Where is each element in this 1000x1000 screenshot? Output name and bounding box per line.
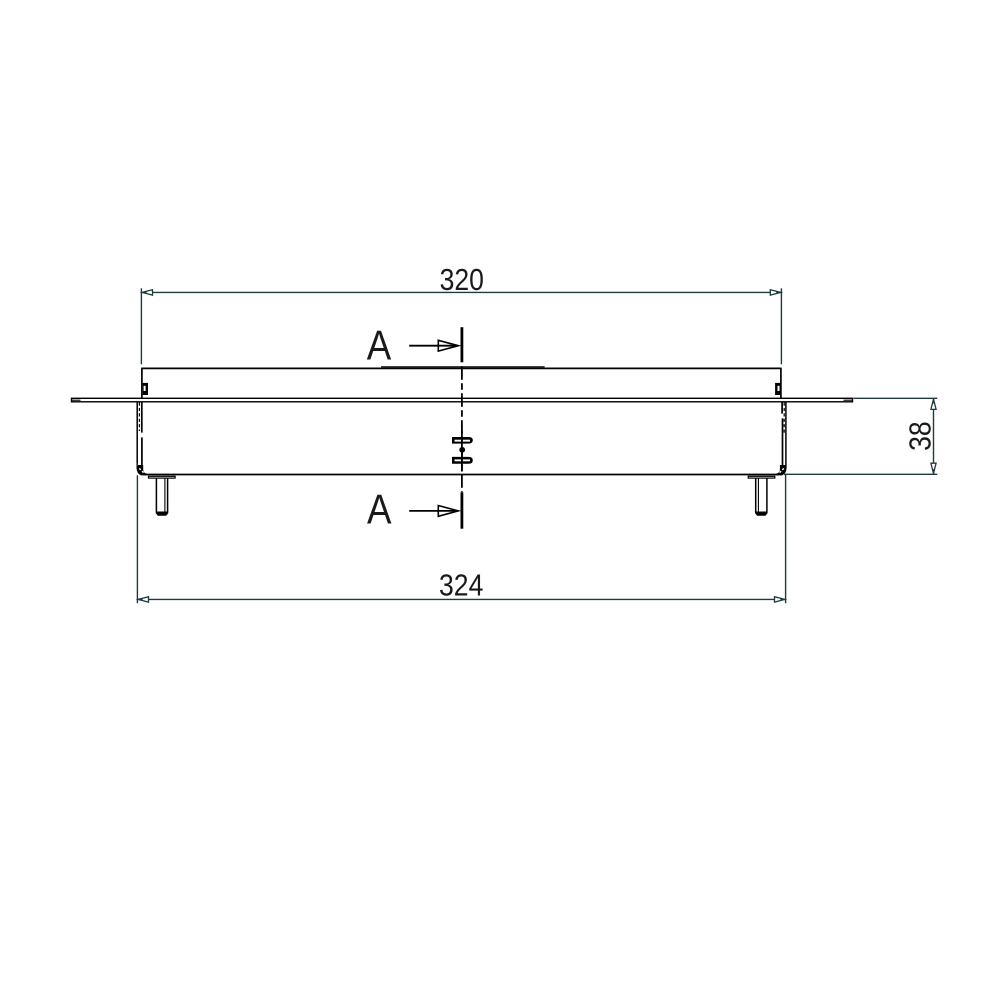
section label A top <box>367 323 392 369</box>
dimension 320 text <box>440 264 484 298</box>
svg-text:324: 324 <box>439 569 483 603</box>
lower box right wall inner <box>781 402 783 465</box>
dimension 320 line <box>141 290 781 295</box>
svg-text:A: A <box>367 323 392 369</box>
body bottom edge <box>145 474 779 476</box>
dimension 324 line <box>137 597 785 602</box>
section label A bottom <box>367 487 392 533</box>
regulator knob upper bar <box>452 437 473 444</box>
bottom-right corner fillet <box>776 465 787 475</box>
left wall hidden dashed edge <box>138 403 140 432</box>
lower box right wall outer <box>785 402 787 467</box>
svg-text:320: 320 <box>440 264 484 298</box>
upper box left wall <box>141 368 143 399</box>
regulator knob center dot <box>459 447 465 453</box>
section arrow top <box>409 340 458 351</box>
left foot plate <box>149 476 176 478</box>
dimension 324 extension lines <box>137 463 785 603</box>
dimension 38 line <box>931 398 936 474</box>
lower box left wall outer <box>136 402 138 467</box>
dimension 324 text <box>439 569 483 603</box>
dimension 38 extension lines <box>784 398 937 474</box>
lower box left wall inner <box>141 402 143 465</box>
section line A-A <box>460 327 463 529</box>
svg-text:38: 38 <box>904 421 938 451</box>
regulator knob lower bar <box>452 457 473 464</box>
upper box right wall <box>780 368 782 399</box>
left clip tab <box>143 383 148 395</box>
lid edge segment <box>381 366 545 368</box>
flange plate <box>72 398 853 402</box>
right wall hidden dashed edge <box>783 403 785 435</box>
right foot plate <box>748 476 775 478</box>
bottom-left corner fillet <box>137 465 148 475</box>
right leg <box>755 478 767 516</box>
body top edge <box>141 367 781 369</box>
section arrow bottom <box>409 506 458 517</box>
dimension 38 text <box>904 421 938 451</box>
svg-text:A: A <box>367 487 392 533</box>
left leg <box>156 478 168 516</box>
right clip tab <box>775 383 780 395</box>
dimension 320 extension lines <box>141 288 781 364</box>
